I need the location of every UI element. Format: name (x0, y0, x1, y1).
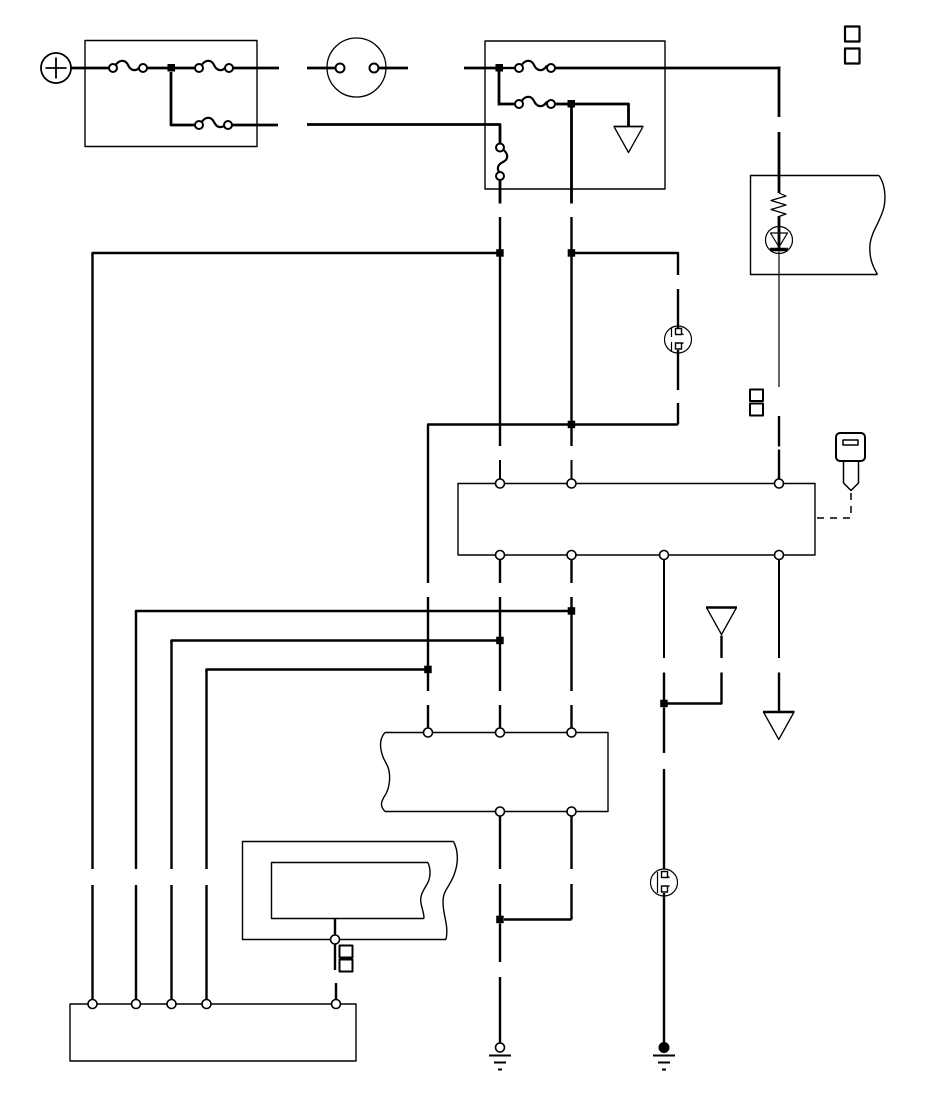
ground G2 (489, 1043, 511, 1070)
vertical IG wire x=500 (499, 217, 501, 446)
wire2 horizontal (172, 641, 501, 643)
pin bottom 4 (775, 551, 784, 560)
trunk latch box (381, 733, 608, 812)
junction J1 (168, 64, 176, 72)
fuse F4 (515, 97, 555, 108)
wire resume to bottom box (335, 983, 337, 1000)
wire J1 to F2 (175, 67, 196, 70)
pin top 1 (496, 479, 505, 488)
pin bottom box 2 (132, 1000, 141, 1009)
wire corner down (778, 67, 781, 118)
ground triangle G3 (706, 606, 737, 608)
wire CN2 to ground (663, 893, 665, 1044)
stub to pin (571, 460, 573, 479)
wire to fuse F6 (307, 125, 500, 144)
wire to triangle apex (720, 636, 722, 659)
fuse F2 (195, 61, 233, 72)
junction J11 (660, 700, 668, 708)
pin trunk top 3 (567, 728, 576, 737)
wire F5 to connector break (232, 124, 278, 127)
junction J4 (496, 249, 504, 257)
wire J2 to F3 (503, 67, 516, 69)
wire lower fuse row (171, 72, 196, 125)
pin trunk top 2 (496, 728, 505, 737)
vertical x=500 lower (499, 560, 501, 729)
wire C horizontal (428, 403, 678, 583)
in-line connector CN2 (651, 869, 678, 896)
junction J2 (496, 64, 504, 72)
ground triangle G1 (614, 126, 644, 128)
connector squares C101 (750, 390, 763, 416)
wire below CN1 (677, 350, 679, 390)
ground triangle G5 (763, 711, 795, 713)
gauge assembly outer box (243, 842, 458, 940)
wire to F4 (499, 103, 516, 106)
pin bottom 3 (660, 551, 669, 560)
pin gauge (331, 935, 340, 944)
pin trunk top 1 (424, 728, 433, 737)
wire J11 to triangle branch (664, 673, 722, 704)
fuse F5 (195, 118, 232, 129)
ground G4 (653, 1043, 675, 1070)
under-dash fuse box (485, 41, 665, 189)
wire below gauge pin (334, 944, 336, 970)
ignition switch SW1 (327, 38, 386, 97)
wire ignition switch output (379, 67, 409, 70)
vertical x=92.5 (91, 253, 93, 1000)
wire3 horizontal (207, 670, 429, 672)
wire below trunk pin2 loop (504, 816, 572, 920)
wire to under-dash fuse box (464, 67, 496, 70)
security indicator box (gauge) (751, 176, 885, 275)
pin bottom box 4 (202, 1000, 211, 1009)
wire J11 down (663, 708, 665, 870)
wire J3 down (570, 104, 573, 204)
wire B horizontal (572, 253, 679, 275)
keyless control unit (458, 484, 815, 556)
wire F2 to connector break (233, 67, 279, 70)
pin bottom box 5 (332, 1000, 341, 1009)
wire J2 down (498, 68, 501, 106)
vertical x=171.5 (170, 641, 172, 1001)
pin trunk bottom 1 (496, 807, 505, 816)
wire control unit pin3 down (663, 560, 665, 659)
wire below trunk pin1 (499, 816, 501, 916)
wire to control unit pin (778, 416, 780, 479)
pin bottom 2 (567, 551, 576, 560)
wire F6 down (499, 180, 502, 204)
wire resume to triangle (778, 673, 780, 713)
wire resume to indicator box (778, 132, 781, 193)
dashed link key to control unit (815, 493, 851, 518)
wire1 horizontal (136, 611, 572, 613)
bottom relay box (70, 1004, 356, 1061)
pin top 3 (775, 479, 784, 488)
wire gauge output (334, 919, 336, 936)
wire A horizontal (93, 253, 501, 255)
resistor R1 (771, 193, 786, 217)
vertical x=206.5 (205, 670, 207, 1001)
wire B resume to connector (677, 289, 679, 330)
wire F1 to junction (147, 67, 168, 70)
in-line connector CN1 (665, 326, 692, 353)
junction J6 (568, 421, 576, 429)
wire resume to junction (663, 673, 665, 704)
junction J5 (568, 249, 576, 257)
vertical x=136 (135, 611, 137, 1000)
pin bottom box 3 (167, 1000, 176, 1009)
fuse F6 vertical (496, 144, 507, 181)
junction J10 (496, 916, 504, 924)
wire control unit pin4 down (778, 560, 780, 659)
under-hood fuse box (85, 41, 257, 147)
wire battery to fuse box (71, 67, 114, 70)
junction J9 (424, 666, 432, 674)
vertical wire x=571.5 (570, 217, 572, 446)
LED D1 security indicator (766, 227, 793, 254)
connector squares C102 (340, 946, 353, 972)
vertical x=428 lower (427, 597, 429, 728)
pin trunk bottom 2 (567, 807, 576, 816)
junction J8 (496, 637, 504, 645)
wire resistor to LED (778, 216, 781, 249)
pin bottom box 1 (88, 1000, 97, 1009)
stub to pin (499, 460, 501, 479)
battery B1 (41, 53, 71, 83)
fuse F3 (515, 61, 555, 72)
ignition key symbol (836, 433, 865, 491)
two connector squares top right (845, 27, 860, 64)
wire F3 to right corner (555, 67, 781, 70)
junction J7 (568, 607, 576, 615)
pin top 2 (567, 479, 576, 488)
wire F4 to junction J3 (555, 103, 568, 106)
wire to ignition switch (307, 67, 336, 70)
vertical x=571.5 lower (570, 560, 572, 729)
wire LED down (778, 252, 780, 388)
fuse F1 (109, 61, 147, 72)
junction J3 (568, 100, 576, 108)
pin bottom 1 (496, 551, 505, 560)
wire J10 to ground (499, 924, 501, 1044)
wire J3 to ground triangle (575, 104, 629, 127)
gauge inner box (272, 863, 431, 919)
